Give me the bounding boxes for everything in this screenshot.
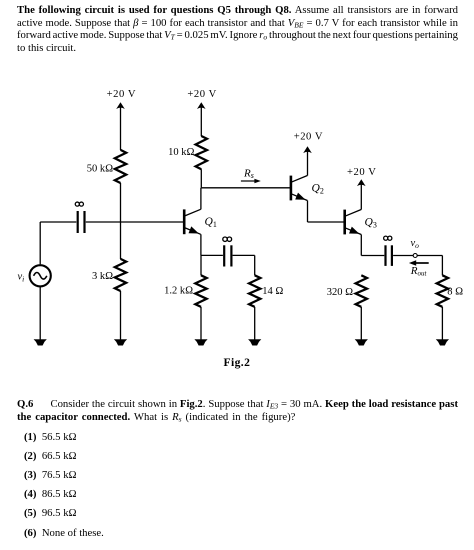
label infinity C3	[384, 236, 392, 240]
svg-text:vo: vo	[411, 238, 420, 250]
wire R8 to ground	[441, 307, 443, 340]
ground (vi branch)	[34, 340, 46, 346]
ground (1.2k branch)	[195, 340, 207, 346]
svg-text:320 Ω: 320 Ω	[327, 287, 353, 298]
capacitor C2 (emitter bypass, infinite)	[224, 245, 231, 266]
wire vi-top to base node	[39, 222, 41, 264]
wire C3 to output node	[393, 255, 413, 257]
wire down to R 8	[441, 256, 443, 276]
resistor 50 kOhm	[115, 150, 126, 183]
source vi (sine)	[30, 265, 51, 286]
svg-text:50 kΩ: 50 kΩ	[87, 164, 113, 175]
wire Q2 emitter to Q3 base	[308, 221, 345, 223]
svg-text:3 kΩ: 3 kΩ	[92, 271, 113, 282]
label infinity C1	[75, 202, 83, 206]
wire node A to Q1 collector	[200, 188, 202, 210]
wire R14 to ground	[254, 307, 256, 340]
resistor 320 Ohm	[356, 275, 367, 307]
svg-text:+20 V: +20 V	[347, 167, 376, 178]
wire R1.2k to ground	[200, 307, 202, 340]
arrow Rs (pointing right)	[241, 179, 261, 184]
transistor Q2	[291, 176, 308, 201]
wire Q1 emitter down	[200, 234, 202, 255]
resistor 3 kOhm	[115, 259, 126, 291]
svg-text:Rs: Rs	[243, 168, 254, 181]
wire R10k to collector node	[200, 169, 202, 188]
svg-text:1.2 kΩ: 1.2 kΩ	[164, 286, 193, 297]
arrow Rout (pointing left)	[409, 260, 429, 266]
ground (320 Ohm branch)	[355, 340, 367, 346]
resistor 1.2 kOhm	[195, 275, 206, 307]
transistor Q1	[184, 209, 201, 234]
wire supply to R 50k	[120, 107, 122, 151]
capacitor C1 (input, infinite)	[78, 211, 85, 233]
wire node A to Q2 base	[201, 187, 290, 189]
wire Q3 emitter node to C3	[361, 255, 384, 257]
ground (8 Ohm branch)	[437, 340, 449, 346]
wire R50k to R3k (through base node)	[120, 183, 122, 259]
wire C2 to R14	[233, 254, 255, 256]
svg-text:10 kΩ: 10 kΩ	[168, 147, 194, 158]
svg-text:Q2: Q2	[312, 183, 324, 196]
transistor Q3	[345, 210, 362, 235]
wire Q1 emitter node to C2	[201, 254, 223, 256]
wire supply to R 10k	[200, 107, 202, 137]
wire R3k to ground	[120, 291, 122, 340]
wire supply to Q3 collector	[360, 184, 362, 210]
wire output node to R8	[417, 255, 442, 257]
ground (14 Ohm branch)	[249, 340, 261, 346]
svg-text:+20 V: +20 V	[107, 89, 136, 100]
svg-text:14 Ω: 14 Ω	[262, 286, 283, 297]
capacitor C3 (output coupling, infinite)	[386, 245, 392, 266]
caption Fig.2	[224, 356, 251, 369]
wire down to R 14	[254, 255, 256, 275]
node vo (open circle)	[413, 254, 417, 258]
wire Q3 emitter down	[360, 235, 362, 256]
wire vi to C1	[40, 221, 76, 223]
svg-text:+20 V: +20 V	[294, 131, 323, 142]
wire supply to Q2 collector	[307, 151, 309, 176]
label infinity C2	[223, 237, 232, 241]
wire vi to ground	[39, 287, 41, 340]
resistor 8 Ohm	[437, 275, 448, 307]
wire C1 to Q1 base	[86, 221, 183, 223]
svg-text:vi: vi	[18, 272, 25, 284]
svg-text:+20 V: +20 V	[187, 89, 216, 100]
resistor 10 kOhm	[196, 136, 207, 169]
supply arrow (Q2 collector)	[303, 146, 312, 153]
wire Q2 emitter down	[307, 201, 309, 223]
svg-text:Q3: Q3	[365, 217, 377, 230]
supply arrow (10k branch)	[197, 102, 206, 109]
resistor 14 Ohm	[249, 275, 260, 307]
wire Q1 emitter node to R1.2k	[200, 255, 202, 275]
svg-text:Rout: Rout	[410, 265, 428, 278]
svg-text:Q1: Q1	[205, 216, 217, 229]
wire R320 to ground	[360, 307, 362, 340]
supply arrow (50k branch)	[116, 102, 125, 109]
supply arrow (Q3 collector)	[357, 179, 366, 186]
ground (3k branch)	[115, 340, 127, 346]
svg-text:8 Ω: 8 Ω	[447, 286, 463, 297]
